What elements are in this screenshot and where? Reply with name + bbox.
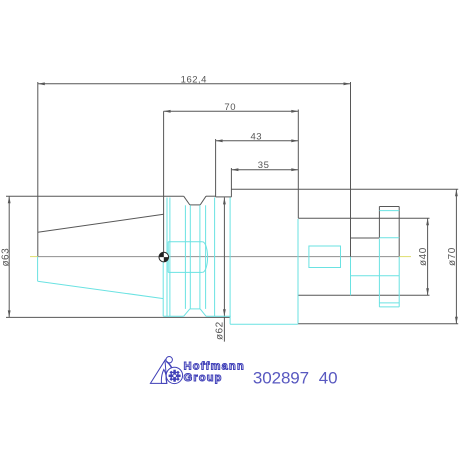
svg-text:162,4: 162,4: [181, 74, 207, 85]
svg-text:35: 35: [258, 160, 270, 171]
svg-text:ø62: ø62: [215, 321, 226, 340]
svg-text:40: 40: [319, 369, 338, 388]
svg-text:Hoffmann: Hoffmann: [184, 361, 245, 373]
svg-text:ø63: ø63: [1, 248, 12, 267]
svg-text:ø40: ø40: [418, 247, 429, 266]
svg-text:Group: Group: [184, 372, 223, 384]
svg-text:70: 70: [224, 102, 236, 113]
svg-text:43: 43: [251, 131, 263, 142]
svg-text:ø70: ø70: [447, 247, 458, 266]
svg-text:302897: 302897: [253, 369, 309, 388]
